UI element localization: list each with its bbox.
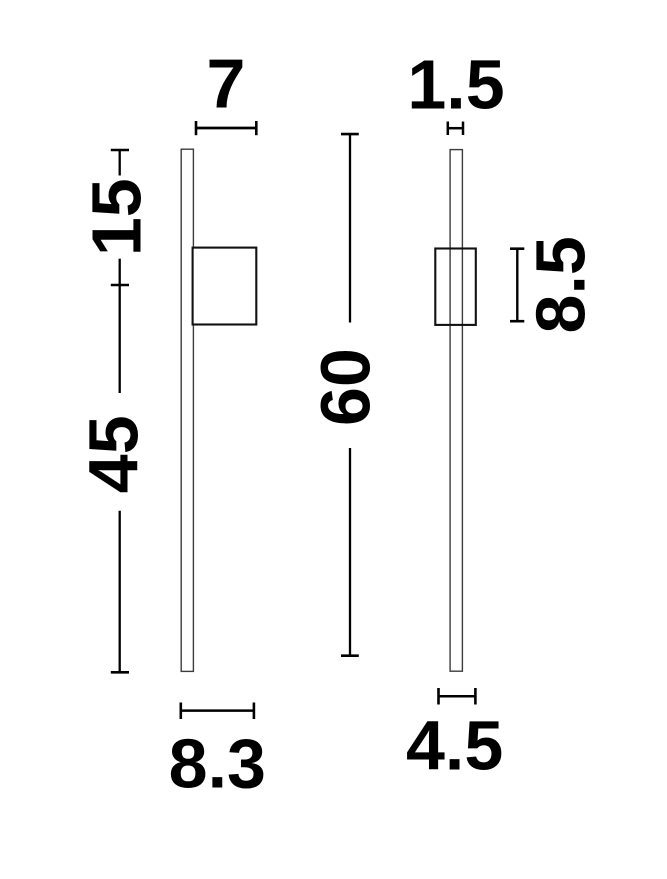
- dimension 15 lower line segment: [119, 259, 121, 285]
- dimension 1.5 line: [448, 127, 463, 130]
- left view lamp bar: [181, 149, 193, 671]
- dimension 4.5 line: [439, 695, 476, 698]
- dimension 4.5 left tick: [437, 688, 440, 705]
- dimension 15 top tick: [111, 149, 129, 152]
- dimension 60 top tick: [341, 133, 359, 136]
- dimension 60 bottom tick: [341, 654, 359, 657]
- dimension 1.5 left tick: [447, 122, 450, 136]
- left view driver box: [193, 248, 257, 325]
- right view lamp bar: [450, 150, 462, 672]
- svg-text:8.5: 8.5: [521, 236, 599, 333]
- dimension 60 lower line segment: [349, 448, 351, 656]
- dimension 8.5 bottom tick: [510, 320, 524, 323]
- right view driver box: [435, 249, 476, 325]
- dimension 8.3 line: [181, 709, 254, 712]
- svg-text:4.5: 4.5: [406, 707, 503, 785]
- dimension 8.5 top tick: [510, 247, 524, 250]
- dimension 45 upper line segment: [119, 285, 121, 393]
- dimension 8.3 right tick: [253, 703, 256, 720]
- dimension 15/45 middle tick: [111, 284, 129, 287]
- dimension 1.5 right tick: [462, 122, 465, 136]
- dimension 45 bottom tick: [111, 671, 129, 674]
- dimension 15 upper line segment: [119, 150, 121, 176]
- dimension 7 right tick: [255, 121, 258, 135]
- svg-text:8.3: 8.3: [169, 724, 266, 802]
- svg-text:15: 15: [78, 178, 156, 256]
- dimension 7 left tick: [195, 121, 198, 135]
- dimension 8.5 line: [516, 249, 518, 322]
- dimension 7 line: [196, 127, 256, 130]
- dimension 60 upper line segment: [349, 134, 351, 322]
- svg-text:60: 60: [306, 348, 384, 426]
- dimension 8.3 left tick: [180, 703, 183, 720]
- dimension 4.5 right tick: [474, 688, 477, 705]
- svg-text:1.5: 1.5: [407, 46, 504, 124]
- svg-text:45: 45: [75, 415, 153, 493]
- dimension 45 lower line segment: [119, 511, 121, 673]
- svg-text:7: 7: [207, 45, 246, 123]
